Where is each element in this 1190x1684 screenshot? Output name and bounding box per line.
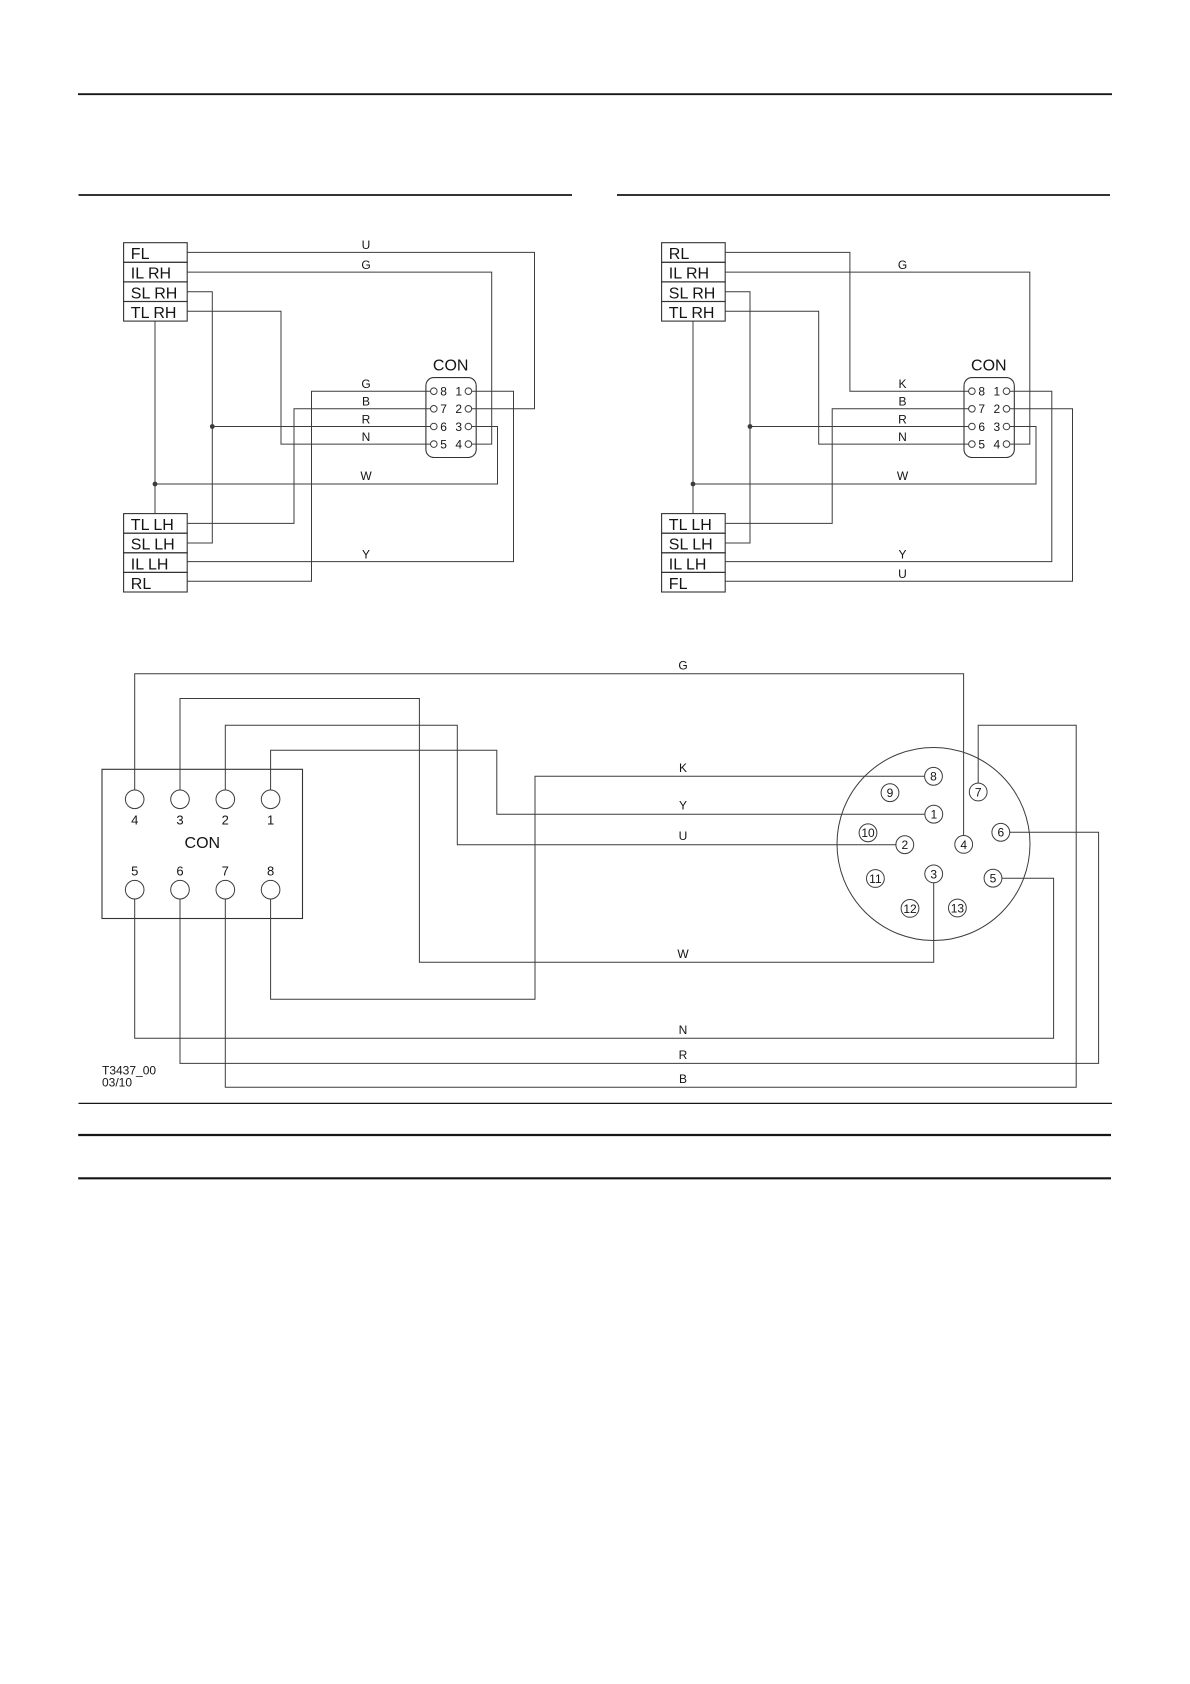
- svg-text:TL LH: TL LH: [669, 517, 712, 534]
- svg-text:W: W: [897, 469, 909, 483]
- svg-text:5: 5: [440, 438, 447, 452]
- footer rule bottom: [78, 1177, 1111, 1179]
- wire B : TL LH to pin 7 (right): [725, 409, 968, 524]
- pin 4 (bottom con): [125, 790, 144, 809]
- svg-text:3: 3: [455, 420, 462, 434]
- svg-text:Y: Y: [679, 799, 687, 813]
- top rule: [78, 93, 1112, 95]
- pin 2: [465, 406, 472, 413]
- svg-text:5: 5: [978, 438, 985, 452]
- svg-text:3: 3: [930, 867, 937, 881]
- svg-text:SL RH: SL RH: [669, 285, 716, 302]
- right section rule: [617, 194, 1110, 196]
- pin 5 (bottom con): [125, 880, 144, 899]
- round pin 9: [881, 784, 899, 802]
- wire B : con7 to round 7: [225, 725, 1076, 1087]
- wire G : con4 to round 4: [135, 674, 964, 836]
- box IL LH (right): [662, 553, 726, 574]
- pin 1 (right con): [1003, 388, 1010, 395]
- box TL RH (right): [662, 302, 726, 322]
- svg-text:RL: RL: [131, 576, 152, 593]
- svg-text:Y: Y: [362, 547, 370, 561]
- svg-text:R: R: [898, 412, 907, 426]
- round 13-pin connector: [837, 748, 1030, 941]
- svg-text:8: 8: [267, 864, 274, 879]
- svg-text:N: N: [679, 1023, 688, 1037]
- box FL: [124, 243, 188, 263]
- svg-text:03/10: 03/10: [102, 1075, 132, 1089]
- svg-text:CON: CON: [185, 835, 221, 852]
- round pin 8: [925, 767, 943, 785]
- box IL LH: [124, 553, 188, 574]
- svg-text:2: 2: [901, 838, 908, 852]
- svg-text:8: 8: [440, 385, 447, 399]
- wire U : con2 to round 2: [225, 725, 896, 844]
- wire K : con8 to round 8: [271, 776, 925, 999]
- pin 1 (bottom con): [261, 790, 280, 809]
- junction dot W: [153, 482, 158, 487]
- svg-text:N: N: [362, 430, 371, 444]
- svg-text:8: 8: [930, 770, 937, 784]
- wire N : TL RH to pin 5 (right): [725, 311, 968, 444]
- footer rule thin: [79, 1102, 1113, 1104]
- svg-text:CON: CON: [433, 358, 469, 375]
- svg-text:7: 7: [222, 864, 229, 879]
- svg-text:9: 9: [887, 786, 894, 800]
- svg-text:TL LH: TL LH: [131, 517, 174, 534]
- svg-text:12: 12: [903, 902, 917, 916]
- round pin 7: [969, 783, 987, 801]
- pin 3: [465, 423, 472, 430]
- wire N : TL RH to pin 5: [187, 311, 430, 444]
- svg-text:5: 5: [131, 864, 138, 879]
- svg-text:IL LH: IL LH: [669, 556, 707, 573]
- box SL RH (right): [662, 282, 726, 302]
- svg-text:IL RH: IL RH: [131, 266, 171, 283]
- wire N : con5 to round 5: [135, 878, 1054, 1038]
- svg-text:U: U: [362, 238, 371, 252]
- svg-text:1: 1: [267, 812, 274, 827]
- wire W : junction to pin 3: [155, 427, 498, 485]
- box FL (right): [662, 572, 726, 593]
- pin 4: [465, 441, 472, 448]
- connector CON (right diagram): [964, 358, 1014, 458]
- wire R : junction to pin 6 (right): [750, 426, 969, 428]
- box IL RH: [124, 262, 188, 282]
- svg-text:K: K: [679, 761, 687, 775]
- svg-text:1: 1: [993, 385, 1000, 399]
- wire G2 : RL to pin 8: [187, 391, 430, 581]
- wire TL RH to TL LH vertical: [154, 321, 156, 513]
- svg-text:U: U: [679, 829, 688, 843]
- svg-text:N: N: [898, 430, 907, 444]
- svg-text:U: U: [898, 567, 907, 581]
- svg-text:R: R: [362, 412, 371, 426]
- junction dot R: [210, 424, 215, 429]
- svg-text:6: 6: [176, 864, 183, 879]
- svg-text:G: G: [361, 377, 370, 391]
- svg-text:G: G: [678, 659, 687, 673]
- svg-text:B: B: [679, 1072, 687, 1086]
- pin 7 (right con): [969, 406, 976, 413]
- svg-text:1: 1: [930, 808, 937, 822]
- round pin 6: [992, 823, 1010, 841]
- svg-text:7: 7: [978, 402, 985, 416]
- svg-text:3: 3: [993, 420, 1000, 434]
- svg-text:Y: Y: [898, 547, 906, 561]
- svg-text:4: 4: [993, 438, 1000, 452]
- box RL (right): [662, 243, 726, 263]
- svg-text:G: G: [898, 258, 907, 272]
- wire Y : IL LH to pin 1 (right): [725, 391, 1052, 561]
- connector CON (bottom 8-way): [102, 769, 303, 918]
- svg-text:IL RH: IL RH: [669, 266, 709, 283]
- svg-text:SL LH: SL LH: [131, 537, 175, 554]
- wire G : IL RH to pin 4 (right): [725, 272, 1030, 444]
- svg-text:1: 1: [455, 385, 462, 399]
- pin 3 (bottom con): [171, 790, 190, 809]
- svg-text:11: 11: [869, 872, 882, 886]
- svg-text:FL: FL: [131, 246, 150, 263]
- svg-text:7: 7: [440, 402, 447, 416]
- wire SL RH to SL LH (right): [725, 292, 750, 543]
- pin 6 (right con): [969, 423, 976, 430]
- wire TL RH to TL LH vertical (right): [692, 321, 694, 513]
- svg-text:7: 7: [975, 785, 982, 799]
- pin 3 (right con): [1003, 423, 1010, 430]
- connector CON (left diagram): [426, 358, 476, 458]
- svg-text:5: 5: [990, 872, 997, 886]
- svg-text:6: 6: [978, 420, 985, 434]
- svg-text:W: W: [677, 947, 689, 961]
- svg-text:TL RH: TL RH: [669, 305, 715, 322]
- wire W : con3 to round 3: [180, 699, 934, 963]
- pin 7: [431, 406, 438, 413]
- round pin 11: [867, 870, 885, 888]
- pin 6 (bottom con): [171, 880, 190, 899]
- pin 5: [431, 441, 438, 448]
- wire B : TL LH to pin 7: [187, 409, 430, 524]
- wire R : junction to pin 6: [212, 426, 430, 428]
- round pin 1: [925, 805, 943, 823]
- wire Y : con1 to round 1: [271, 750, 925, 814]
- svg-text:RL: RL: [669, 246, 690, 263]
- wire U : FL to pin 2 (right): [725, 409, 1072, 582]
- pin 7 (bottom con): [216, 880, 235, 899]
- box TL RH: [124, 302, 188, 322]
- svg-text:SL RH: SL RH: [131, 285, 178, 302]
- round pin 4: [955, 836, 973, 854]
- junction dot W (right): [691, 482, 696, 487]
- svg-text:FL: FL: [669, 576, 688, 593]
- svg-text:B: B: [898, 395, 906, 409]
- svg-text:B: B: [362, 395, 370, 409]
- svg-text:10: 10: [861, 826, 875, 840]
- svg-text:8: 8: [978, 385, 985, 399]
- svg-text:6: 6: [997, 826, 1004, 840]
- round pin 5: [984, 869, 1002, 887]
- svg-text:R: R: [679, 1048, 688, 1062]
- svg-text:2: 2: [455, 402, 462, 416]
- wire G : IL RH to pin 4: [187, 272, 492, 444]
- svg-text:IL LH: IL LH: [131, 556, 169, 573]
- svg-text:W: W: [360, 469, 372, 483]
- box SL LH (right): [662, 533, 726, 554]
- pin 8 (right con): [969, 388, 976, 395]
- pin 4 (right con): [1003, 441, 1010, 448]
- pin 8 (bottom con): [261, 880, 280, 899]
- svg-text:G: G: [361, 258, 370, 272]
- svg-text:4: 4: [455, 438, 462, 452]
- box SL LH: [124, 533, 188, 554]
- wire R : con6 to round 6: [180, 832, 1099, 1063]
- pin 2 (right con): [1003, 406, 1010, 413]
- wire SL RH to SL LH: [187, 292, 212, 543]
- wire W : junction to pin 3 (right): [693, 427, 1036, 485]
- wire U : FL to pin 2: [187, 252, 534, 408]
- svg-text:2: 2: [993, 402, 1000, 416]
- svg-text:4: 4: [131, 812, 138, 827]
- svg-text:CON: CON: [971, 358, 1007, 375]
- svg-text:6: 6: [440, 420, 447, 434]
- footer rule mid: [78, 1134, 1111, 1136]
- pin 8: [431, 388, 438, 395]
- svg-text:3: 3: [176, 812, 183, 827]
- wire Y : IL LH to pin 1: [187, 391, 513, 561]
- wire K : RL to pin 8 (right): [725, 252, 968, 391]
- junction dot R (right): [748, 424, 753, 429]
- box TL LH (right): [662, 514, 726, 534]
- round pin 3: [925, 865, 943, 883]
- pin 2 (bottom con): [216, 790, 235, 809]
- pin 1: [465, 388, 472, 395]
- pin 5 (right con): [969, 441, 976, 448]
- svg-text:4: 4: [960, 838, 967, 852]
- box SL RH: [124, 282, 188, 302]
- svg-text:TL RH: TL RH: [131, 305, 177, 322]
- svg-text:K: K: [898, 377, 906, 391]
- left section rule: [79, 194, 573, 196]
- round pin 10: [859, 824, 877, 842]
- box IL RH (right): [662, 262, 726, 282]
- round pin 13: [949, 899, 967, 917]
- pin 6: [431, 423, 438, 430]
- round pin 2: [896, 836, 914, 854]
- svg-text:SL LH: SL LH: [669, 537, 713, 554]
- box RL: [124, 572, 188, 593]
- box TL LH: [124, 514, 188, 534]
- round pin 12: [901, 900, 919, 918]
- svg-text:2: 2: [222, 812, 229, 827]
- svg-text:13: 13: [951, 901, 965, 915]
- connector body circle: [837, 748, 1030, 941]
